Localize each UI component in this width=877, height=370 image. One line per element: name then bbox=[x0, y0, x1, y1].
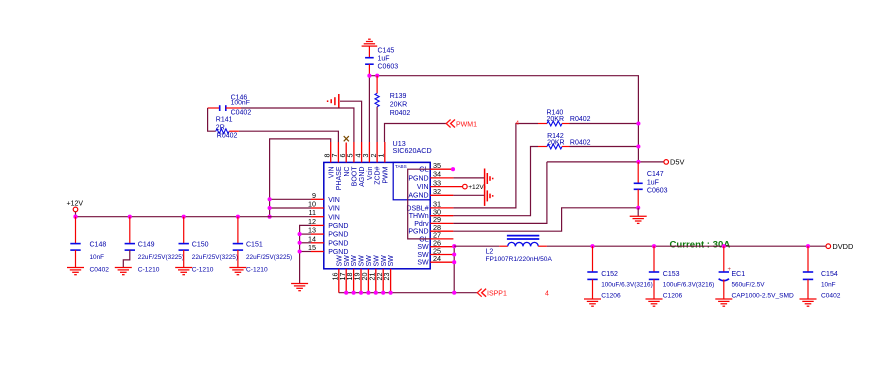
svg-text:1: 1 bbox=[377, 154, 386, 158]
capacitor C145 bbox=[365, 46, 374, 76]
pin number 4 bbox=[353, 154, 362, 158]
C154 designator bbox=[821, 271, 838, 278]
node pin10 junction bbox=[268, 206, 272, 210]
svg-text:PWM: PWM bbox=[382, 166, 389, 183]
C153 footprint bbox=[663, 293, 683, 300]
pin 15 stub (left, PGND) bbox=[311, 251, 324, 253]
svg-text:23: 23 bbox=[382, 273, 391, 281]
resistor R142 left wire bbox=[453, 147, 538, 216]
resistor R139 top lead bbox=[376, 76, 378, 94]
pin 32 stub (right, AGND) bbox=[430, 194, 453, 196]
ground below C150 bbox=[175, 268, 192, 275]
R142 footprint R0402 bbox=[570, 139, 591, 146]
EC1 footprint bbox=[732, 293, 795, 300]
resistor R140 right lead bbox=[562, 123, 570, 125]
C149 designator bbox=[138, 241, 155, 248]
pin label DSBL# bbox=[406, 205, 428, 212]
pin 34 stub (right, PGND) bbox=[430, 177, 453, 179]
C147 designator bbox=[647, 171, 664, 178]
svg-text:SW: SW bbox=[359, 255, 366, 267]
pin 21 stub (bottom, SW) bbox=[375, 269, 377, 293]
node rail/C148 junction bbox=[73, 215, 77, 219]
EC1 plus mark bbox=[728, 267, 732, 273]
inductor L2 right lead bbox=[538, 245, 547, 247]
svg-text:C150: C150 bbox=[192, 241, 209, 248]
wire PGND pins 12-15 vertical bbox=[300, 225, 311, 283]
capacitor C149 bbox=[125, 217, 135, 251]
C150 designator bbox=[192, 241, 209, 248]
pin label SW bbox=[351, 255, 358, 267]
pin number 17 bbox=[338, 273, 347, 281]
node SW pin24 junction bbox=[452, 260, 456, 264]
ground below PGND pins bbox=[291, 284, 308, 291]
resistor R141 bbox=[216, 129, 229, 134]
pin label SW bbox=[366, 255, 373, 267]
svg-text:Current : 30A: Current : 30A bbox=[670, 239, 731, 250]
pin 4 stub (top, AGND) bbox=[361, 142, 363, 162]
node SW bus junction bbox=[374, 291, 378, 295]
wire pin10 to vertical bbox=[270, 207, 311, 209]
svg-text:AGND: AGND bbox=[408, 193, 428, 200]
C145 footprint C0603 bbox=[378, 63, 399, 70]
C154 footprint bbox=[821, 293, 841, 300]
pin number 24 bbox=[433, 254, 441, 263]
pin number 28 bbox=[433, 223, 441, 232]
svg-text:SW: SW bbox=[351, 255, 358, 267]
pin 17 stub (bottom, SW) bbox=[345, 269, 347, 293]
pin label VIN bbox=[328, 167, 335, 179]
port DVDD text bbox=[832, 242, 853, 251]
svg-text:DSBL#: DSBL# bbox=[406, 205, 428, 212]
C148 designator bbox=[90, 241, 107, 248]
pin 19 stub (bottom, SW) bbox=[360, 269, 362, 293]
svg-text:C0402: C0402 bbox=[821, 293, 841, 300]
C151 value bbox=[246, 254, 292, 261]
svg-text:C0603: C0603 bbox=[378, 63, 399, 70]
C154 value bbox=[821, 282, 836, 289]
R142 value 20KR bbox=[547, 139, 565, 146]
node pin9 junction bbox=[268, 197, 272, 201]
svg-text:11: 11 bbox=[309, 208, 316, 217]
pin label ZCD# bbox=[375, 166, 382, 184]
capacitor EC1 bbox=[719, 246, 729, 299]
wire pin29 Pdrv to D5V row bbox=[453, 162, 547, 224]
svg-text:VIN: VIN bbox=[328, 197, 340, 204]
svg-text:20KR: 20KR bbox=[547, 116, 565, 123]
pin 20 stub (bottom, SW) bbox=[367, 269, 369, 293]
capacitor C146 left lead bbox=[208, 107, 220, 109]
R140 value 20KR bbox=[547, 116, 565, 123]
svg-text:SW: SW bbox=[417, 244, 429, 251]
pin 29 stub (right, Pdrv) bbox=[430, 222, 453, 224]
capacitor C146 right lead bbox=[226, 107, 241, 109]
pin number 20 bbox=[360, 273, 369, 281]
svg-text:Vcin: Vcin bbox=[367, 166, 374, 180]
node rail/C148 junction bbox=[73, 215, 77, 219]
svg-text:ZCD#: ZCD# bbox=[375, 166, 382, 184]
pin label NC bbox=[344, 167, 351, 177]
node R142/vertical junction bbox=[636, 144, 640, 148]
wire SW node vertical bbox=[453, 246, 455, 293]
svg-text:L2: L2 bbox=[486, 249, 494, 256]
svg-text:C147: C147 bbox=[647, 171, 664, 178]
node rail/C149 junction bbox=[128, 215, 132, 219]
svg-text:PGND: PGND bbox=[328, 232, 348, 239]
pin 1 stub (top, PWM) bbox=[384, 142, 386, 162]
pin label Vcin bbox=[367, 166, 374, 180]
wire pin13 PGND link bbox=[300, 233, 311, 235]
wire R140 to D5V vertical bbox=[570, 123, 639, 125]
pin 23 stub (bottom, SW) bbox=[390, 269, 392, 293]
svg-text:AGND: AGND bbox=[359, 167, 366, 187]
svg-text:C-1210: C-1210 bbox=[138, 266, 160, 273]
svg-text:12: 12 bbox=[308, 217, 316, 226]
svg-text:ISPP1: ISPP1 bbox=[487, 291, 507, 298]
svg-text:VIN: VIN bbox=[328, 167, 335, 179]
node rail/EC1 junction bbox=[722, 244, 726, 248]
svg-text:C149: C149 bbox=[138, 241, 155, 248]
node pin15 PGND junction bbox=[298, 249, 302, 253]
svg-text:SW: SW bbox=[336, 255, 343, 267]
pin number 8 bbox=[323, 154, 332, 158]
pin 3 stub (top, Vcin) bbox=[368, 142, 370, 162]
svg-text:R0402: R0402 bbox=[217, 132, 238, 139]
pin label SW bbox=[417, 244, 429, 251]
wire GL jumper pin35 to pin27 bbox=[408, 169, 431, 239]
svg-text:32: 32 bbox=[433, 187, 441, 196]
pin number 30 bbox=[433, 208, 441, 217]
pin 5 stub (top, BOOT) bbox=[353, 142, 355, 162]
C153 value bbox=[663, 282, 715, 289]
svg-text:22uF/25V(3225): 22uF/25V(3225) bbox=[138, 254, 184, 261]
node pin14 PGND junction bbox=[298, 241, 302, 245]
pin number 3 bbox=[361, 154, 370, 158]
port D5V text bbox=[670, 158, 684, 167]
svg-text:C153: C153 bbox=[663, 271, 680, 278]
resistor R140 left lead bbox=[538, 123, 547, 125]
svg-text:35: 35 bbox=[433, 161, 441, 170]
pin number 1 bbox=[377, 154, 386, 158]
wire +12V rail bbox=[76, 216, 312, 218]
svg-text:10nF: 10nF bbox=[821, 282, 836, 289]
node SW bus junction bbox=[344, 291, 348, 295]
C152 designator bbox=[601, 271, 618, 278]
net label ISPP1 text bbox=[487, 291, 507, 298]
node C147 ground junction bbox=[636, 206, 640, 210]
svg-text:C1206: C1206 bbox=[663, 293, 683, 300]
net label ISPP1 chevron bbox=[477, 289, 486, 297]
wire output rail DVDD bbox=[547, 245, 826, 247]
port +12V circle (left) bbox=[73, 207, 78, 212]
node rail/C153 junction bbox=[652, 244, 656, 248]
C149 value bbox=[138, 254, 184, 261]
pin 25 stub (right, SW) bbox=[430, 254, 453, 256]
pin 13 stub (left, PGND) bbox=[311, 233, 324, 235]
svg-text:C-1210: C-1210 bbox=[246, 266, 268, 273]
pin 18 stub (bottom, SW) bbox=[353, 269, 355, 293]
pin label VIN bbox=[417, 184, 429, 191]
svg-text:D5V: D5V bbox=[670, 158, 684, 167]
port number 4 (red) bbox=[545, 291, 549, 298]
pin label VIN bbox=[328, 206, 340, 213]
pin 9 stub (left, VIN) bbox=[311, 198, 324, 200]
svg-text:R141: R141 bbox=[216, 117, 233, 124]
pin 24 stub (right, SW) bbox=[430, 261, 453, 263]
U13 part number SIC620ACD bbox=[393, 146, 432, 155]
svg-text:+12V: +12V bbox=[67, 201, 84, 208]
ground below EC1 bbox=[715, 299, 732, 306]
capacitor C151 bbox=[233, 217, 243, 251]
svg-text:PGND: PGND bbox=[408, 229, 428, 236]
resistor R142 left lead bbox=[538, 146, 547, 148]
pin 16 stub (bottom, SW) bbox=[338, 269, 340, 293]
C148 value bbox=[90, 254, 105, 261]
svg-text:+: + bbox=[728, 267, 732, 273]
capacitor C150 bbox=[179, 217, 189, 251]
svg-text:SW: SW bbox=[388, 255, 395, 267]
pin 30 stub (right, THWn) bbox=[430, 215, 453, 217]
node D5V junction bbox=[636, 160, 640, 164]
pin label VIN bbox=[328, 214, 340, 221]
R141 right lead bbox=[229, 130, 239, 132]
R141 value 2R bbox=[216, 124, 225, 131]
node pin13 PGND junction bbox=[298, 232, 302, 236]
pin label AGND bbox=[408, 193, 428, 200]
wire R142 to D5V vertical bbox=[570, 146, 639, 148]
node SW bus junction bbox=[366, 291, 370, 295]
U13 designator label bbox=[393, 139, 406, 148]
node SW bus junction bbox=[352, 291, 356, 295]
capacitor C148 bbox=[70, 217, 80, 251]
svg-text:R139: R139 bbox=[390, 93, 407, 100]
pin number 22 bbox=[375, 273, 384, 281]
node rail/C151 junction bbox=[236, 215, 240, 219]
resistor R142 bbox=[547, 144, 562, 149]
svg-text:PGND: PGND bbox=[408, 175, 428, 182]
pin number 9 bbox=[312, 191, 316, 200]
C151 designator bbox=[246, 241, 263, 248]
pin 7 stub (top, PHASE) bbox=[337, 142, 339, 162]
svg-text:PGND: PGND bbox=[328, 249, 348, 256]
node SW bus junction bbox=[389, 291, 393, 295]
svg-text:BOOT: BOOT bbox=[352, 166, 359, 187]
pin number 19 bbox=[353, 273, 362, 281]
resistor R142 right lead bbox=[562, 146, 570, 148]
ground below C148 bbox=[67, 268, 84, 275]
svg-text:GL: GL bbox=[419, 167, 428, 174]
pin label SW bbox=[373, 255, 380, 267]
pin number 34 bbox=[433, 170, 441, 179]
port +12V text (left) bbox=[67, 201, 84, 208]
pin 22 stub (bottom, SW) bbox=[382, 269, 384, 293]
node R140/vertical junction bbox=[636, 121, 640, 125]
svg-text:FP1007R1/220nH/50A: FP1007R1/220nH/50A bbox=[486, 256, 553, 263]
C152 footprint bbox=[601, 293, 621, 300]
pin 8 stub (top, VIN) bbox=[330, 142, 332, 162]
C148 bottom lead bbox=[75, 250, 77, 267]
ground below C147 bbox=[630, 208, 647, 224]
svg-text:10nF: 10nF bbox=[90, 254, 105, 261]
pin number 18 bbox=[345, 273, 354, 281]
C146 value 100nF bbox=[231, 100, 250, 107]
C151 footprint bbox=[246, 266, 268, 273]
svg-text:C145: C145 bbox=[378, 47, 395, 54]
pin 35 stub (right, GL) bbox=[430, 168, 451, 170]
node rail/C150 junction bbox=[182, 215, 186, 219]
wire pin8 VIN to +12V vertical bbox=[270, 139, 331, 217]
svg-text:24: 24 bbox=[433, 254, 441, 263]
capacitor C152 bbox=[587, 246, 597, 299]
svg-text:SW: SW bbox=[381, 255, 388, 267]
ground bars at pin32 bbox=[485, 186, 493, 206]
pin number 13 bbox=[308, 226, 316, 235]
C153 designator bbox=[663, 271, 680, 278]
C152 value bbox=[601, 282, 653, 289]
svg-text:22uF/25V(3225): 22uF/25V(3225) bbox=[192, 254, 238, 261]
wire C146 to pin5 BOOT bbox=[241, 108, 354, 142]
EC1 value bbox=[732, 282, 766, 289]
node C145/pin3 junction bbox=[367, 74, 371, 78]
U13 TABS sub-box bbox=[393, 162, 430, 199]
tiny red 4 marker at R140 corner bbox=[516, 121, 520, 127]
ground above C145 (inverted) bbox=[362, 39, 378, 46]
pin 12 stub (left, PGND) bbox=[311, 224, 324, 226]
wire pin32 AGND to bar ground bbox=[453, 194, 484, 196]
pin label BOOT bbox=[352, 166, 359, 187]
wire SW node to inductor bbox=[454, 245, 499, 247]
port +12V circle at pin33 bbox=[463, 184, 468, 189]
pin 14 stub (left, PGND) bbox=[311, 242, 324, 244]
EC1 designator bbox=[732, 271, 746, 278]
pin label GL bbox=[419, 167, 428, 174]
wire pin34 PGND to bar ground bbox=[453, 177, 484, 179]
svg-text:SW: SW bbox=[366, 255, 373, 267]
svg-text:PHASE: PHASE bbox=[336, 166, 343, 190]
pin number 27 bbox=[433, 231, 441, 240]
node SW bus junction bbox=[381, 291, 385, 295]
pin label Pdrv bbox=[414, 221, 429, 228]
wire pin14 PGND link bbox=[300, 242, 311, 244]
C149 bottom lead jog bbox=[123, 250, 130, 267]
R141 footprint R0402 bbox=[217, 132, 238, 139]
capacitor C153 bbox=[649, 246, 659, 299]
svg-text:R0402: R0402 bbox=[390, 110, 411, 117]
R139 footprint R0402 bbox=[390, 110, 411, 117]
wire PWM1 to pin1 bbox=[385, 124, 447, 143]
svg-text:PGND: PGND bbox=[328, 240, 348, 247]
C148 footprint bbox=[90, 266, 110, 273]
inductor L2 left lead bbox=[499, 245, 508, 247]
svg-text:C154: C154 bbox=[821, 271, 838, 278]
pin number 6 bbox=[338, 154, 347, 158]
svg-text:1uF: 1uF bbox=[378, 55, 390, 62]
svg-text:THWn: THWn bbox=[409, 213, 429, 220]
port D5V circle bbox=[664, 160, 669, 165]
pin number 10 bbox=[308, 200, 316, 209]
node rail/C154 junction bbox=[806, 244, 810, 248]
C149 footprint bbox=[138, 266, 160, 273]
pin number 31 bbox=[433, 200, 441, 209]
pin label SW bbox=[381, 255, 388, 267]
svg-text:22uF/25V(3225): 22uF/25V(3225) bbox=[246, 254, 292, 261]
svg-text:R0402: R0402 bbox=[570, 116, 591, 123]
svg-text:20KR: 20KR bbox=[547, 139, 565, 146]
svg-text:SIC620ACD: SIC620ACD bbox=[393, 146, 432, 155]
svg-text:C151: C151 bbox=[246, 241, 263, 248]
svg-text:PGND: PGND bbox=[328, 223, 348, 230]
port +12V text at pin33 bbox=[468, 184, 484, 191]
pin 6 stub (top, NC) bbox=[345, 143, 347, 163]
wire D5V row bbox=[547, 161, 664, 163]
svg-text:NC: NC bbox=[344, 167, 351, 177]
node pin2 branch junction bbox=[375, 74, 379, 78]
node SW pin25 junction bbox=[452, 252, 456, 256]
svg-text:SW: SW bbox=[417, 260, 429, 267]
svg-text:34: 34 bbox=[433, 170, 441, 179]
pin label PGND bbox=[328, 223, 348, 230]
pin number 21 bbox=[367, 273, 376, 281]
svg-text:15: 15 bbox=[308, 243, 316, 252]
net label PWM1 text bbox=[456, 121, 477, 128]
svg-text:C-1210: C-1210 bbox=[192, 266, 214, 273]
pin number 25 bbox=[433, 246, 441, 255]
ground AGND bar symbol (top) bbox=[328, 94, 339, 108]
wire SW bus bottom bbox=[339, 292, 478, 294]
svg-text:CAP1000-2.5V_SMD: CAP1000-2.5V_SMD bbox=[732, 293, 795, 300]
svg-text:100uF/6.3V(3216): 100uF/6.3V(3216) bbox=[663, 282, 715, 289]
pin number 12 bbox=[308, 217, 316, 226]
pin number 32 bbox=[433, 187, 441, 196]
L2 value FP1007R1/220nH/50A bbox=[486, 256, 553, 263]
pin number 29 bbox=[433, 215, 441, 224]
wire pin15 PGND link bbox=[300, 251, 311, 253]
pin label SW bbox=[359, 255, 366, 267]
pin 2 stub (top, ZCD#) bbox=[376, 142, 378, 162]
wire R141 to pin7 PHASE bbox=[239, 131, 339, 142]
svg-text:20KR: 20KR bbox=[390, 101, 408, 108]
text Current : 30A bbox=[670, 239, 731, 250]
wire pin3 Vcin to C145 node bbox=[368, 76, 370, 142]
C150 bottom lead bbox=[183, 250, 185, 267]
R139 bottom lead wire bbox=[376, 107, 378, 142]
wire +12V port lead bbox=[75, 212, 77, 217]
pin label GL bbox=[419, 236, 428, 243]
pin 31 stub (right, DSBL#) bbox=[430, 207, 453, 209]
svg-text:C1206: C1206 bbox=[601, 293, 621, 300]
C150 value bbox=[192, 254, 238, 261]
svg-text:2R: 2R bbox=[216, 124, 225, 131]
ground below C152 bbox=[584, 299, 601, 306]
svg-text:4: 4 bbox=[545, 291, 549, 298]
svg-text:VIN: VIN bbox=[417, 184, 429, 191]
pin label PGND bbox=[408, 229, 428, 236]
wire AGND ground to pin4 bbox=[340, 101, 362, 142]
svg-text:100uF/6.3V(3216): 100uF/6.3V(3216) bbox=[601, 282, 653, 289]
svg-text:C0603: C0603 bbox=[647, 187, 668, 194]
svg-text:DVDD: DVDD bbox=[832, 242, 853, 251]
svg-text:C148: C148 bbox=[90, 241, 107, 248]
R139 designator bbox=[390, 93, 407, 100]
ground below C154 bbox=[800, 299, 817, 306]
svg-text:PWM1: PWM1 bbox=[456, 121, 477, 128]
node pin35 dead-end dot bbox=[451, 167, 455, 171]
svg-text:GL: GL bbox=[419, 236, 428, 243]
IC U13 SIC620ACD body bbox=[324, 162, 430, 268]
pin label SW bbox=[417, 252, 429, 259]
ground bars at pin34 bbox=[485, 169, 493, 189]
R139 value 20KR bbox=[390, 101, 408, 108]
ground below C151 bbox=[229, 268, 246, 275]
